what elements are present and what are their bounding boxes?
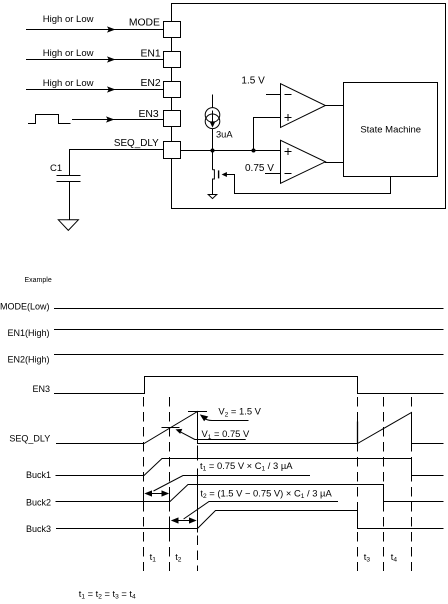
svg-text:Buck1: Buck1 <box>26 470 51 480</box>
leader arrow V2 <box>200 414 249 421</box>
ground for C1 <box>58 220 78 231</box>
wire branch to comparator U2 + input <box>254 118 281 151</box>
trace EN3 <box>54 377 444 394</box>
svg-text:3uA: 3uA <box>216 130 233 140</box>
wire EN1 input <box>26 56 164 62</box>
dashed line Buck2 off <box>383 397 385 571</box>
op-amp U3 comparator bottom <box>281 140 326 183</box>
solid segment on t3 boundary <box>197 469 199 533</box>
dashed line Buck1 off <box>411 397 413 571</box>
op-amp U2 comparator top <box>281 84 326 128</box>
trace EN1(High) <box>54 329 444 331</box>
trace Buck3 <box>56 511 444 529</box>
svg-text:EN3: EN3 <box>33 384 51 394</box>
t1 interval arrow <box>144 490 169 496</box>
svg-text:State Machine: State Machine <box>360 125 421 136</box>
svg-text:EN1(High): EN1(High) <box>8 328 50 338</box>
svg-text:EN1: EN1 <box>140 48 160 59</box>
wire 0.75V reference input <box>265 173 281 175</box>
svg-text:MODE: MODE <box>129 18 160 29</box>
t2 interval fences <box>170 517 198 533</box>
solid segment on Buck3 off line <box>357 422 359 444</box>
svg-text:Buck2: Buck2 <box>26 497 51 507</box>
junction at comparator branch <box>252 149 256 153</box>
wire EN3 input <box>72 116 164 122</box>
svg-text:EN2: EN2 <box>140 78 160 89</box>
pin EN3 <box>164 111 181 127</box>
current source I1 3uA <box>205 95 220 151</box>
trace MODE(Low) <box>54 308 444 310</box>
svg-text:MODE(Low): MODE(Low) <box>0 302 50 312</box>
pin EN2 <box>164 82 181 98</box>
svg-text:EN3: EN3 <box>138 109 158 120</box>
capacitor C1 <box>57 176 81 220</box>
wire EN2 input <box>26 86 164 92</box>
dashed line t1 boundary left <box>143 397 145 571</box>
IC boundary box U1 <box>172 4 446 209</box>
junction at transistor column <box>211 149 215 153</box>
svg-text:1.5 V: 1.5 V <box>241 76 265 87</box>
State Machine block <box>344 83 438 177</box>
tick V2 peak <box>188 411 207 413</box>
svg-text:t1 = t2 = t3 = t4: t1 = t2 = t3 = t4 <box>79 589 136 601</box>
pin EN1 <box>164 52 181 68</box>
svg-text:Example: Example <box>25 277 52 284</box>
t1 interval fences <box>144 494 170 509</box>
svg-text:0.75 V: 0.75 V <box>245 163 274 174</box>
svg-text:t1 = 0.75 V × C1 / 3 µA: t1 = 0.75 V × C1 / 3 µA <box>200 460 293 473</box>
trace SEQ_DLY ramp <box>56 412 444 444</box>
wire U3 output <box>325 161 343 164</box>
transistor Q1 <box>213 151 219 195</box>
wire 1.5V reference input <box>266 94 281 96</box>
wire feedback from State Machine to Q1 gate <box>222 172 391 194</box>
leader arrow V1 <box>176 429 246 440</box>
svg-text:Buck3: Buck3 <box>26 524 51 534</box>
ground for Q1 <box>208 195 217 199</box>
wire U2 output <box>325 105 343 107</box>
t2 annotation leader <box>184 502 338 520</box>
svg-text:SEQ_DLY: SEQ_DLY <box>114 138 159 149</box>
wire MODE input <box>26 26 164 32</box>
dashed line Buck3 off <box>357 397 359 571</box>
wire SEQ_DLY node <box>181 150 281 152</box>
svg-text:SEQ_DLY: SEQ_DLY <box>9 433 50 443</box>
pin SEQ_DLY <box>164 142 181 159</box>
trace Buck2 <box>56 485 444 502</box>
pin MODE <box>164 22 181 38</box>
svg-text:High or Low: High or Low <box>43 78 94 89</box>
wire SEQ_DLY to C1 <box>70 150 164 176</box>
t2 interval arrow <box>171 517 197 523</box>
svg-text:t2 = (1.5 V − 0.75 V) × C1 / 3: t2 = (1.5 V − 0.75 V) × C1 / 3 µA <box>200 487 332 500</box>
tick V1 crossing <box>162 427 180 429</box>
svg-text:High or Low: High or Low <box>43 48 94 59</box>
svg-text:EN2(High): EN2(High) <box>8 355 50 365</box>
trace Buck1 <box>56 459 444 476</box>
t1 annotation leader <box>154 476 311 492</box>
svg-text:High or Low: High or Low <box>43 14 94 25</box>
trace EN2(High) <box>54 354 444 356</box>
dashed line t3 boundary left <box>197 446 199 461</box>
EN3 pulse stimulus <box>28 115 71 124</box>
dashed line t2 boundary left <box>169 397 171 571</box>
svg-text:C1: C1 <box>50 163 62 174</box>
